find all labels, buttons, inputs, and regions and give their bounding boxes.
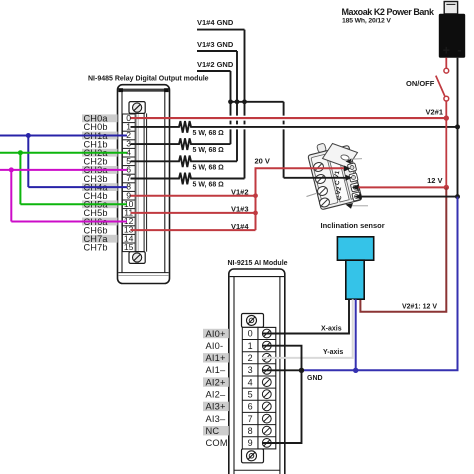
resistor R4 5W 68ohm on CH3b row [131,173,245,189]
node C2 junction [455,194,460,199]
module U1 NI-9485 body outline [118,85,170,284]
wire blue vertical [27,136,29,188]
wire GND stub down to terminal block C (with hops) [284,102,346,178]
highlight bar CH3a [82,166,118,174]
arrow into terminal block C1 [346,175,353,181]
TB1 left screws [313,162,331,208]
node sensor GND junction [353,368,358,373]
svg-text:15: 15 [124,242,134,252]
wire blue CH4a to U1 pin 8 [28,186,127,188]
wire black from terminal block C2 to right vertical [360,196,458,198]
wire V1#3 GND horizontal [197,50,237,52]
svg-text:AI3–: AI3– [206,414,227,424]
svg-text:Y-axis: Y-axis [323,349,343,356]
svg-text:2: 2 [248,353,253,363]
highlight bar CH6a [82,218,118,226]
node 12V junction [444,185,449,190]
highlight bar AI3+ [203,402,229,411]
TB1 top face [323,144,358,168]
svg-text:-: - [457,43,461,57]
svg-text:4: 4 [248,377,253,387]
switch S1 blade [436,76,445,97]
highlight bar NC [203,426,229,435]
arrow into terminal block V1 [344,166,351,172]
svg-text:6: 6 [248,402,253,412]
resistor R1 5W 68ohm on CH0b row [131,121,458,137]
screw bottom U2 [247,451,257,461]
wire blue sensor GND lead [355,299,357,370]
wire V1#4 GND vertical to resistor row 4 (with hops) [244,30,246,179]
module U1 connector strip [129,102,147,264]
sensor M1 stem [346,260,364,299]
svg-text:Inclination sensor: Inclination sensor [321,221,385,230]
svg-text:V1#4: V1#4 [231,222,249,231]
wire red 20V vertical [256,168,345,230]
wire black AI1- to GND junction [262,369,302,371]
node GND bus junction 2 [235,99,240,104]
wire magenta CH6a to U1 pin 12 [11,221,127,223]
screw top U2 [247,315,257,325]
wire blue CH1a from left edge to U1 pin 2 [0,135,127,137]
svg-text:5 W, 68 Ω: 5 W, 68 Ω [193,164,225,171]
svg-text:AI1+: AI1+ [206,353,226,363]
wire red V1#2 from U1 pin 9 [131,195,256,197]
battery B1 plug [444,2,457,14]
node GND bus junction 1 [228,99,233,104]
highlight bar CH2a [82,149,118,157]
module U2 NI-9215 body outline [229,269,285,474]
svg-text:AI2+: AI2+ [206,377,226,387]
wire V1#2 GND vertical to resistor row 2 (with hops) [230,71,232,144]
wire light gray Y-axis lead [262,299,353,358]
svg-text:COM: COM [206,438,228,448]
svg-text:V1#3: V1#3 [231,205,249,214]
wire red switch to V2#1 bus [445,101,447,118]
arrow into terminal block V2 [352,184,359,190]
wire V1#3 GND vertical to resistor row 3 (with hops) [236,51,238,161]
svg-text:AI2–: AI2– [206,390,227,400]
wire red V2#1 bus from U1 pin 0 to switch drop [131,117,447,119]
node magenta junction [9,167,14,172]
svg-text:1: 1 [248,341,253,351]
svg-text:AI1–: AI1– [206,365,227,375]
svg-text:V1#2 GND: V1#2 GND [197,60,234,69]
wire black down to C2 line [457,127,459,197]
highlight bar CH0a [82,114,118,122]
svg-text:V2#1: 12 V: V2#1: 12 V [402,304,437,311]
wire V1#2 GND horizontal [197,70,231,72]
svg-text:NC: NC [206,426,220,436]
screw top U1 [133,103,142,112]
TB1 body [308,145,362,209]
svg-text:5: 5 [248,389,253,399]
U1 pin ladder [122,114,135,252]
wire green vertical [19,153,21,205]
node blue junction [26,133,31,138]
wire magenta CH3a from left edge to U1 pin 6 [0,169,127,171]
node green junction [18,150,23,155]
highlight bar AI0+ [203,329,229,338]
U2 pin ladder [242,327,275,449]
highlight bar AI1+ [203,353,229,362]
TB1 knob [317,143,327,153]
svg-text:NI-9215 AI Module: NI-9215 AI Module [228,260,288,267]
svg-text:12 V: 12 V [427,176,442,185]
switch S1 bottom contact [444,96,449,101]
svg-text:AI3+: AI3+ [206,402,226,412]
sensor M1 head [337,237,373,260]
switch S1 ON/OFF top contact [444,68,449,73]
svg-text:AI0+: AI0+ [206,329,226,339]
resistor R2 5W 68ohm on CH1b row [131,138,231,154]
wire black from battery minus down right side [457,58,459,127]
wire green CH5a to U1 pin 10 [20,203,127,205]
wire GND tie bus [231,101,284,103]
svg-text:9: 9 [248,438,253,448]
wire red 12V from terminal block V2 [358,186,447,188]
highlight bar CH5a [82,200,118,208]
U2 connector strip [242,314,276,463]
wire green CH2a from left edge to U1 pin 4 [0,152,127,154]
wire red from battery plus to switch [445,58,447,69]
svg-text:V1#2: V1#2 [231,187,249,196]
svg-text:V1#3 GND: V1#3 GND [197,40,234,49]
highlight bar CH7a [82,235,118,243]
svg-text:5 W, 68 Ω: 5 W, 68 Ω [193,147,225,154]
highlight bar AI2+ [203,377,229,386]
node battery minus / R1 junction [455,124,460,129]
svg-text:X-axis: X-axis [321,325,342,332]
node AI1-/COM GND junction [299,368,304,373]
svg-text:Maxoak K2 Power Bank: Maxoak K2 Power Bank [342,7,435,17]
svg-text:20 V: 20 V [255,157,270,166]
svg-text:5 W, 68 Ω: 5 W, 68 Ω [193,182,225,189]
wire black X-axis lead to AI0+ [262,299,349,333]
wire magenta vertical [10,170,12,222]
svg-text:+: + [443,44,450,58]
U2 terminal screws [262,329,271,447]
svg-text:AI0-: AI0- [206,341,224,351]
highlight bar CH4a [82,183,118,191]
svg-text:5 W, 68 Ω: 5 W, 68 Ω [193,130,225,137]
svg-text:CH7b: CH7b [84,243,108,253]
wire red bus down to 12V junction [445,118,447,187]
annotation arrow at TB1 terminal 1 [346,159,363,164]
node V2#1 bus junction [444,115,449,120]
svg-text:V2#1: V2#1 [425,107,443,116]
wire blue GND return down right side [302,197,458,371]
svg-text:3: 3 [248,365,253,375]
svg-text:0: 0 [248,329,253,339]
TB1 terminal cells [347,163,361,201]
node V1#2 junction [253,193,258,198]
wire red V1#3 from U1 pin 11 [131,212,256,214]
svg-text:185 Wh, 20/12 V: 185 Wh, 20/12 V [342,18,391,25]
svg-text:7: 7 [248,414,253,424]
battery B1 body [439,14,465,58]
annotation leader at TB1 left screws [307,194,317,197]
svg-text:ON/OFF: ON/OFF [406,79,435,88]
wire maroon V2 supply down to sensor [360,187,446,311]
svg-text:NI-9485 Relay Digital Output m: NI-9485 Relay Digital Output module [88,76,209,83]
svg-text:GND: GND [307,375,323,382]
wire V1#4 GND horizontal [197,29,245,31]
svg-text:8: 8 [248,426,253,436]
highlight bar CH1a [82,132,118,140]
node V1#3 junction [253,211,258,216]
wire black AI0- to GND vertical [262,346,302,443]
resistor R3 5W 68ohm on CH2b row [131,156,238,172]
annotation arrow at TB1 terminal 4 bottom [346,203,369,209]
svg-text:V1#4 GND: V1#4 GND [197,18,234,27]
screw bottom U1 [133,253,142,262]
node GND bus junction 3 [242,99,247,104]
wire red V1#4 from U1 pin 13 [131,229,256,231]
terminal block TB1 (isometric power distribution block) [307,143,369,210]
arrow into terminal block C2 [355,194,362,200]
